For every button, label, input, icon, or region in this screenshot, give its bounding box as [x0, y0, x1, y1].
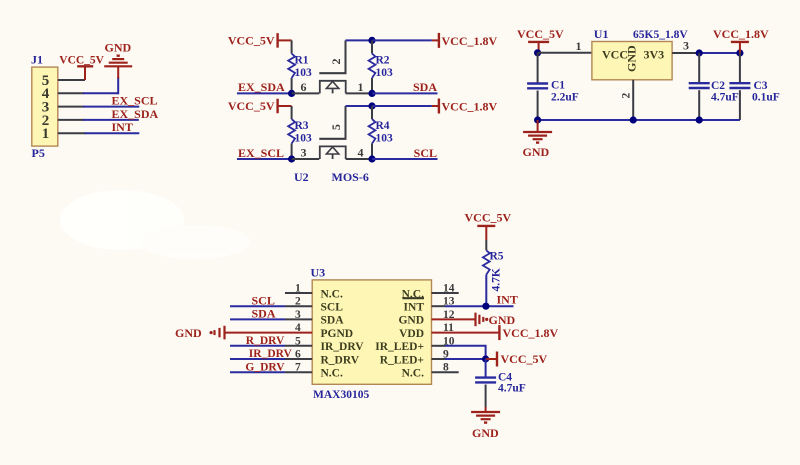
- svg-text:VCC_1.8V: VCC_1.8V: [503, 326, 559, 340]
- node at EX_SDA / R1: [288, 90, 295, 97]
- power flag VCC_1.8V (R2): [438, 33, 440, 48]
- wire VCC_5V to U1 pin 1: [538, 52, 592, 54]
- svg-text:IR_DRV: IR_DRV: [249, 348, 293, 360]
- svg-text:VCC_5V: VCC_5V: [465, 211, 512, 225]
- node R_LED+ / C4: [482, 355, 489, 362]
- node at SDA / R2: [368, 90, 375, 97]
- resistor R3: [288, 119, 295, 144]
- resistor R3 lead: [291, 106, 293, 119]
- svg-text:R3: R3: [295, 120, 309, 132]
- svg-text:IR_DRV: IR_DRV: [321, 341, 365, 353]
- resistor R1: [288, 54, 295, 79]
- svg-text:VCC_1.8V: VCC_1.8V: [442, 100, 498, 114]
- svg-text:C2: C2: [711, 80, 725, 92]
- svg-text:4.7uF: 4.7uF: [498, 383, 526, 395]
- svg-text:VCC_5V: VCC_5V: [501, 352, 548, 366]
- svg-text:P5: P5: [32, 146, 45, 160]
- power flag VCC_5V (J1): [84, 66, 86, 80]
- svg-text:4.7K: 4.7K: [491, 268, 503, 291]
- svg-text:1: 1: [576, 39, 582, 53]
- svg-text:INT: INT: [112, 120, 133, 134]
- wire rail to VCC_1.8V: [372, 105, 432, 107]
- svg-text:VCC_5V: VCC_5V: [59, 55, 104, 67]
- wire SCL: [372, 158, 438, 160]
- MOSFET drain pin to rail: [345, 40, 347, 73]
- node INT / R5: [482, 303, 489, 310]
- ground GND (J1): [117, 66, 119, 78]
- power flag VCC_5V (R1): [276, 33, 278, 48]
- svg-text:EX_SDA: EX_SDA: [238, 80, 285, 94]
- U1 pin 2 to ground rail: [632, 80, 634, 120]
- J1 pin 5 wire to VCC_5V: [58, 79, 85, 81]
- svg-text:103: 103: [295, 67, 313, 79]
- svg-text:3: 3: [301, 146, 307, 160]
- svg-text:R_DRV: R_DRV: [321, 354, 360, 366]
- capacitor C4: [485, 359, 487, 378]
- power flag VCC_1.8V (U3): [498, 325, 500, 340]
- ground GND (U3 pin 4, sideways): [223, 326, 225, 340]
- svg-text:GND: GND: [398, 315, 424, 327]
- wire INT (U3 pin 13): [432, 305, 446, 307]
- svg-text:1: 1: [42, 126, 50, 142]
- svg-text:R1: R1: [295, 55, 309, 67]
- svg-text:103: 103: [376, 67, 394, 79]
- resistor R5: [485, 240, 487, 250]
- U3 pin 1 stub: [285, 292, 312, 294]
- resistor R4: [371, 106, 373, 119]
- wire SDA: [372, 92, 438, 94]
- wire VDD (U3 pin 11): [432, 332, 499, 334]
- svg-text:EX_SCL: EX_SCL: [112, 94, 158, 108]
- svg-text:R4: R4: [376, 120, 390, 132]
- svg-text:65K5_1.8V: 65K5_1.8V: [633, 29, 688, 41]
- svg-text:SDA: SDA: [413, 80, 437, 94]
- svg-text:N.C.: N.C.: [402, 368, 424, 380]
- MOSFET drain pin to rail: [345, 106, 347, 139]
- svg-text:VCC_5V: VCC_5V: [228, 34, 275, 48]
- svg-text:5: 5: [329, 124, 343, 130]
- svg-text:2: 2: [329, 59, 343, 65]
- node at rail / R4: [368, 102, 375, 109]
- svg-text:IR_LED+: IR_LED+: [375, 341, 424, 353]
- svg-text:103: 103: [376, 133, 394, 145]
- capacitor C2: [698, 53, 700, 83]
- svg-text:SCL: SCL: [252, 293, 275, 307]
- svg-text:U2: U2: [294, 170, 309, 184]
- svg-text:R5: R5: [490, 251, 504, 263]
- svg-text:U1: U1: [594, 27, 609, 41]
- node VCC_5V / C1: [534, 49, 541, 56]
- svg-text:6: 6: [301, 80, 307, 94]
- node at rail / R2: [368, 37, 375, 44]
- power flag VCC_5V (R3): [276, 99, 278, 114]
- svg-text:VCC_1.8V: VCC_1.8V: [442, 34, 498, 48]
- svg-text:VDD: VDD: [399, 328, 424, 340]
- wire rail to VCC_1.8V: [372, 39, 432, 41]
- node rail / U1 pin2: [630, 116, 637, 123]
- svg-text:GND: GND: [625, 45, 639, 72]
- svg-text:SCL: SCL: [321, 302, 344, 314]
- svg-text:VCC_5V: VCC_5V: [228, 99, 275, 113]
- svg-text:GND: GND: [523, 145, 550, 159]
- capacitor C3: [739, 53, 741, 83]
- svg-text:GND: GND: [175, 326, 202, 340]
- J1 pin 4 wire to GND: [58, 92, 84, 94]
- svg-text:INT: INT: [404, 302, 425, 314]
- svg-text:R2: R2: [376, 55, 390, 67]
- wire INT (J1 pin 1): [58, 132, 86, 134]
- svg-text:2: 2: [621, 93, 633, 99]
- power flag VCC_1.8V (R4): [438, 99, 440, 114]
- svg-text:J1: J1: [31, 53, 43, 67]
- power flag VCC_1.8V (U1): [731, 41, 749, 43]
- node at EX_SCL / R3: [288, 155, 295, 162]
- svg-text:4: 4: [358, 146, 364, 160]
- svg-text:MAX30105: MAX30105: [313, 389, 369, 401]
- ground GND (C4): [485, 407, 487, 412]
- node pin3 / C2: [696, 49, 703, 56]
- power flag VCC_5V (U3 pin 9): [496, 352, 498, 367]
- wire U1 pin 3 to VCC_1.8V: [672, 52, 699, 54]
- svg-text:3V3: 3V3: [644, 48, 665, 62]
- svg-text:2.2uF: 2.2uF: [551, 92, 579, 104]
- resistor R2: [371, 40, 373, 53]
- svg-text:N.C.: N.C.: [321, 288, 343, 300]
- svg-text:EX_SDA: EX_SDA: [112, 107, 159, 121]
- svg-text:MOS-6: MOS-6: [332, 170, 369, 184]
- svg-text:N.C.: N.C.: [321, 368, 343, 380]
- wire G_DRV (U3 pin 7): [230, 371, 285, 373]
- wire EX_SCL (J1 pin 3): [58, 106, 84, 108]
- svg-text:SDA: SDA: [321, 315, 345, 327]
- svg-text:VCC_1.8V: VCC_1.8V: [713, 27, 769, 41]
- node at SCL / R4: [368, 155, 375, 162]
- wire EX_SDA: [237, 92, 292, 94]
- svg-text:EX_SCL: EX_SCL: [238, 146, 284, 160]
- MOSFET U2 (EX_SDA channel): [319, 72, 346, 74]
- ground rail wire (U1): [538, 119, 740, 121]
- svg-text:C1: C1: [551, 80, 565, 92]
- svg-text:VCC_5V: VCC_5V: [517, 27, 564, 41]
- wire SDA (U3 pin 3): [230, 318, 285, 320]
- U3 pin 14 stub: [432, 292, 459, 294]
- wire GND (U3 pin 12): [432, 318, 476, 320]
- wire SCL (U3 pin 2): [230, 305, 285, 307]
- svg-text:PGND: PGND: [321, 328, 354, 340]
- wire R_LED+ (U3 pin 9): [432, 358, 446, 360]
- wire IR_DRV (U3 pin 6): [230, 358, 285, 360]
- svg-text:R_DRV: R_DRV: [246, 335, 285, 347]
- wire EX_SCL: [237, 158, 292, 160]
- svg-text:103: 103: [295, 133, 313, 145]
- node VCC_1.8V / C3: [736, 49, 743, 56]
- power flag VCC_5V (U1): [528, 41, 549, 43]
- svg-text:SDA: SDA: [252, 307, 276, 321]
- svg-text:SCL: SCL: [414, 146, 437, 160]
- wire EX_SDA (J1 pin 2): [58, 119, 84, 121]
- svg-text:GND: GND: [105, 41, 132, 55]
- connector J1 (header P5): [31, 53, 58, 161]
- wire MOSFET to SDA: [346, 92, 372, 94]
- wire node to MOSFET source: [292, 92, 320, 94]
- svg-text:GND: GND: [472, 426, 499, 440]
- IC U3 body: [312, 280, 431, 384]
- MOSFET U2 (EX_SCL channel): [319, 138, 346, 140]
- capacitor C1: [537, 53, 539, 84]
- wire IR_LED+ (U3 pin 10): [432, 345, 446, 347]
- ground GND (U3 pin 12, sideways): [474, 313, 476, 327]
- svg-text:0.1uF: 0.1uF: [752, 92, 780, 104]
- regulator U1 body: [592, 42, 672, 80]
- ground GND (U1): [537, 120, 539, 132]
- svg-text:1: 1: [358, 80, 364, 94]
- wire PGND (U3 pin 4): [225, 332, 313, 334]
- wire node to MOSFET source: [292, 158, 320, 160]
- svg-text:INT: INT: [497, 292, 518, 306]
- wire MOSFET to SCL: [346, 158, 372, 160]
- node rail / C1: [534, 116, 541, 123]
- svg-text:U3: U3: [311, 266, 326, 280]
- U3 pin 8 stub: [432, 371, 459, 373]
- svg-text:3: 3: [683, 39, 689, 53]
- node rail / C2: [696, 116, 703, 123]
- wire R_DRV (U3 pin 5): [230, 345, 285, 347]
- svg-text:4.7uF: 4.7uF: [711, 92, 739, 104]
- svg-text:C3: C3: [754, 80, 768, 92]
- svg-text:G_DRV: G_DRV: [245, 361, 285, 373]
- power flag VCC_5V (R5): [477, 225, 495, 227]
- svg-text:R_LED+: R_LED+: [380, 354, 424, 366]
- resistor R1 lead: [291, 40, 293, 53]
